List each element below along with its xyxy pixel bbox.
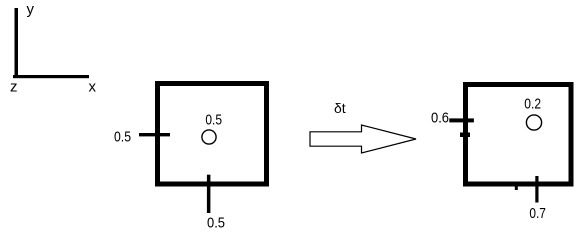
x-axis line xyxy=(13,75,89,78)
svg-text:0.5: 0.5 xyxy=(207,214,225,231)
svg-text:0.5: 0.5 xyxy=(114,128,131,145)
svg-text:0.7: 0.7 xyxy=(529,205,546,222)
right square: bottom short dash xyxy=(515,183,518,190)
svg-text:δt: δt xyxy=(334,100,346,116)
svg-text:0.2: 0.2 xyxy=(524,95,541,112)
svg-text:y: y xyxy=(27,1,35,18)
y-axis line xyxy=(15,8,19,78)
right square: circle marker xyxy=(526,115,541,130)
right square: left long tick xyxy=(449,118,474,122)
svg-text:z: z xyxy=(10,79,18,96)
right square: bottom tick xyxy=(535,176,538,203)
right square xyxy=(466,85,572,185)
block arrow xyxy=(310,125,416,153)
left square xyxy=(158,84,267,185)
right square: left short tick xyxy=(460,133,470,138)
svg-text:x: x xyxy=(89,79,97,96)
left square: circle marker xyxy=(202,130,216,144)
svg-text:0.5: 0.5 xyxy=(205,111,222,128)
svg-text:0.6: 0.6 xyxy=(431,109,449,126)
left square: left tick xyxy=(139,133,170,136)
left square: bottom tick xyxy=(207,175,211,213)
